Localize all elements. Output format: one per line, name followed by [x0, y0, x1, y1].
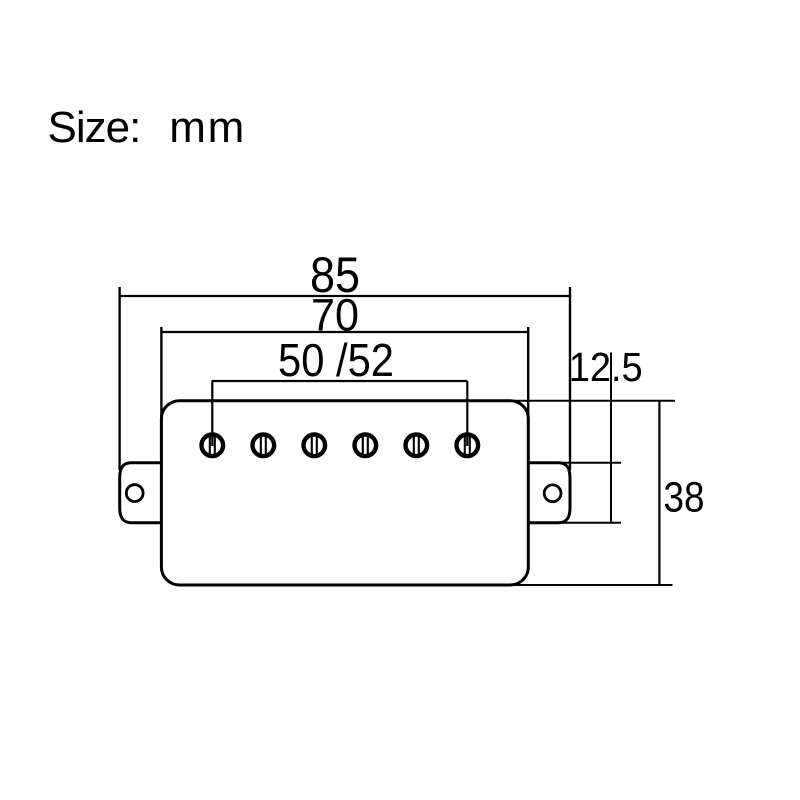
pole piece 6: [457, 435, 479, 457]
pole piece 2: [252, 435, 274, 457]
svg-text:Size:: Size:: [48, 103, 141, 152]
svg-text:mm: mm: [169, 103, 246, 152]
left ear screw hole: [126, 485, 143, 502]
extension line right of 70: [527, 327, 529, 468]
body top extension line: [514, 400, 675, 402]
svg-text:70: 70: [311, 290, 359, 341]
pole piece 4: [355, 435, 377, 457]
extension line right of 50/52 down to pole 6: [466, 381, 468, 446]
extension line right of 85: [569, 287, 571, 470]
right ear bottom extension line: [528, 522, 621, 524]
body bottom extension line: [512, 584, 673, 586]
right ear top extension line: [528, 462, 621, 464]
svg-text:38: 38: [664, 474, 705, 522]
pole piece 3: [304, 435, 326, 457]
extension line left of 85: [118, 287, 120, 470]
right mounting ear: [528, 463, 570, 523]
dimension line 38: [658, 401, 660, 585]
vertical line of 12.5 dimension: [610, 353, 612, 524]
pole piece 5: [406, 435, 428, 457]
left mounting ear: [120, 463, 162, 523]
right ear screw hole: [544, 485, 561, 502]
extension line left of 70: [160, 327, 162, 468]
svg-text:50 /52: 50 /52: [278, 334, 394, 386]
pole piece 1: [202, 435, 224, 457]
extension line left of 50/52 down to pole 1: [211, 381, 213, 446]
pickup body outline: [161, 401, 528, 585]
dimension line 85: [119, 295, 570, 297]
dimension line 50/52: [212, 380, 468, 382]
dimension line 70: [161, 331, 528, 333]
svg-text:12.5: 12.5: [569, 344, 643, 390]
